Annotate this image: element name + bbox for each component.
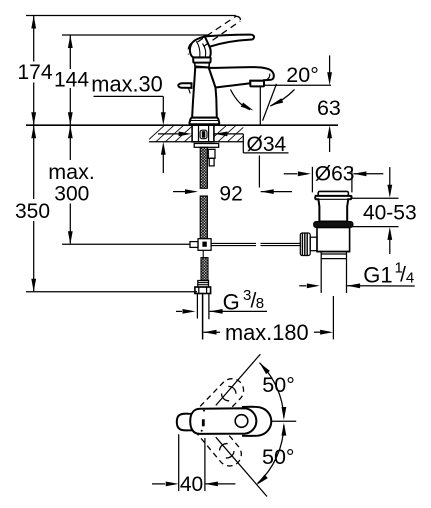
50 deg diagonal lower bbox=[216, 437, 267, 496]
svg-text:50°: 50° bbox=[262, 445, 295, 469]
extension line top (174 ref) bbox=[26, 15, 236, 17]
drain flange bell bbox=[315, 196, 352, 222]
hose thread collar bbox=[198, 281, 209, 288]
spout tip detail bbox=[266, 74, 270, 81]
50 deg arc lower bbox=[258, 425, 284, 484]
centerline bbox=[272, 420, 296, 422]
svg-text:20°: 20° bbox=[286, 63, 319, 87]
svg-text:max.30: max.30 bbox=[91, 71, 162, 96]
svg-text:350: 350 bbox=[15, 200, 50, 223]
top view spout capsule bbox=[242, 407, 271, 436]
deck bottom line bbox=[149, 141, 243, 143]
dashed swivel capsule upper bbox=[194, 374, 249, 430]
svg-text:300: 300 bbox=[54, 183, 89, 206]
svg-text:G: G bbox=[223, 290, 240, 315]
lower braided hose bbox=[201, 258, 208, 281]
50 deg arc upper bbox=[260, 363, 284, 418]
dimension 63 bbox=[317, 55, 341, 152]
drain rubber seal (dark) bbox=[314, 222, 353, 228]
drain plug cap bbox=[318, 191, 348, 196]
handle temp tick bbox=[202, 419, 205, 426]
pop-up rod tee fitting bbox=[190, 239, 211, 258]
svg-text:144: 144 bbox=[54, 68, 89, 91]
drain knurled knob bbox=[300, 233, 310, 256]
mounting shank bbox=[192, 125, 214, 142]
dimension Ø34 arrows bbox=[158, 132, 289, 156]
hose nut bbox=[195, 287, 211, 294]
hub interior detail bbox=[203, 44, 206, 58]
dimension 174 bbox=[17, 16, 52, 126]
dashed swivel capsule lower bbox=[193, 414, 246, 471]
svg-text:174: 174 bbox=[17, 61, 52, 84]
dimension max.300 bbox=[48, 125, 95, 244]
svg-text:50°: 50° bbox=[262, 373, 295, 397]
drain extension lines (Ø63) bbox=[311, 167, 313, 193]
label G3/8 bbox=[176, 287, 267, 314]
supply hose braided upper bbox=[200, 147, 207, 238]
svg-text:G1: G1 bbox=[363, 262, 392, 287]
dimension 92 bbox=[173, 182, 292, 205]
svg-text:92: 92 bbox=[219, 182, 242, 205]
horizontal pop-up rod bbox=[211, 243, 301, 245]
drain tailpiece bbox=[317, 252, 350, 340]
svg-text:63: 63 bbox=[317, 96, 341, 120]
water stream tilted line (20 deg) bbox=[263, 84, 277, 121]
svg-text:8: 8 bbox=[256, 295, 264, 312]
svg-text:40-53: 40-53 bbox=[363, 201, 417, 224]
20 deg arc right bbox=[270, 90, 294, 107]
top view pop-up knob bbox=[177, 414, 193, 431]
water stream vertical line bbox=[259, 87, 261, 125]
svg-text:Ø34: Ø34 bbox=[247, 133, 287, 156]
pop-up rod knob bbox=[178, 83, 191, 88]
faucet base flange bbox=[189, 118, 219, 125]
pop-up rod socket bbox=[208, 149, 215, 158]
label G1 1/4 bbox=[299, 260, 414, 289]
dimension 350 bbox=[15, 125, 50, 292]
20 deg arc left bbox=[231, 90, 251, 110]
lever raised (dashed) bbox=[188, 16, 240, 54]
extension line 144 ref bbox=[62, 34, 208, 36]
deck top line bbox=[26, 124, 338, 126]
escutcheon cap bbox=[193, 57, 211, 62]
dimension 40 bbox=[152, 434, 235, 496]
handle hub bbox=[190, 37, 211, 58]
svg-text:Ø63: Ø63 bbox=[315, 162, 355, 185]
shank washer below deck bbox=[194, 144, 219, 148]
spout aerator bbox=[250, 81, 264, 87]
50 deg diagonal upper bbox=[216, 354, 261, 405]
extension line max300 bottom bbox=[62, 243, 190, 245]
dimension 40-53 bbox=[352, 167, 417, 254]
counter deck hatching bbox=[145, 124, 257, 143]
label max.30 with leader bbox=[91, 71, 165, 173]
svg-text:max.180: max.180 bbox=[225, 320, 309, 345]
dimension 144 bbox=[54, 35, 89, 125]
drain side boss bbox=[310, 237, 317, 251]
svg-text:4: 4 bbox=[406, 270, 414, 287]
svg-text:max.: max. bbox=[48, 160, 95, 184]
top view handle bbox=[190, 408, 256, 434]
dimension Ø63 bbox=[284, 162, 384, 185]
dimension max.180 bbox=[204, 320, 334, 345]
faucet body column bbox=[192, 67, 217, 118]
drain body bbox=[317, 228, 350, 252]
handle circle bbox=[235, 415, 248, 428]
hose end tube bbox=[197, 294, 209, 340]
svg-text:40: 40 bbox=[180, 473, 203, 496]
faucet spout bbox=[209, 67, 274, 87]
lever handle (rest position) bbox=[205, 35, 254, 47]
extension line 350 bottom bbox=[26, 291, 197, 293]
